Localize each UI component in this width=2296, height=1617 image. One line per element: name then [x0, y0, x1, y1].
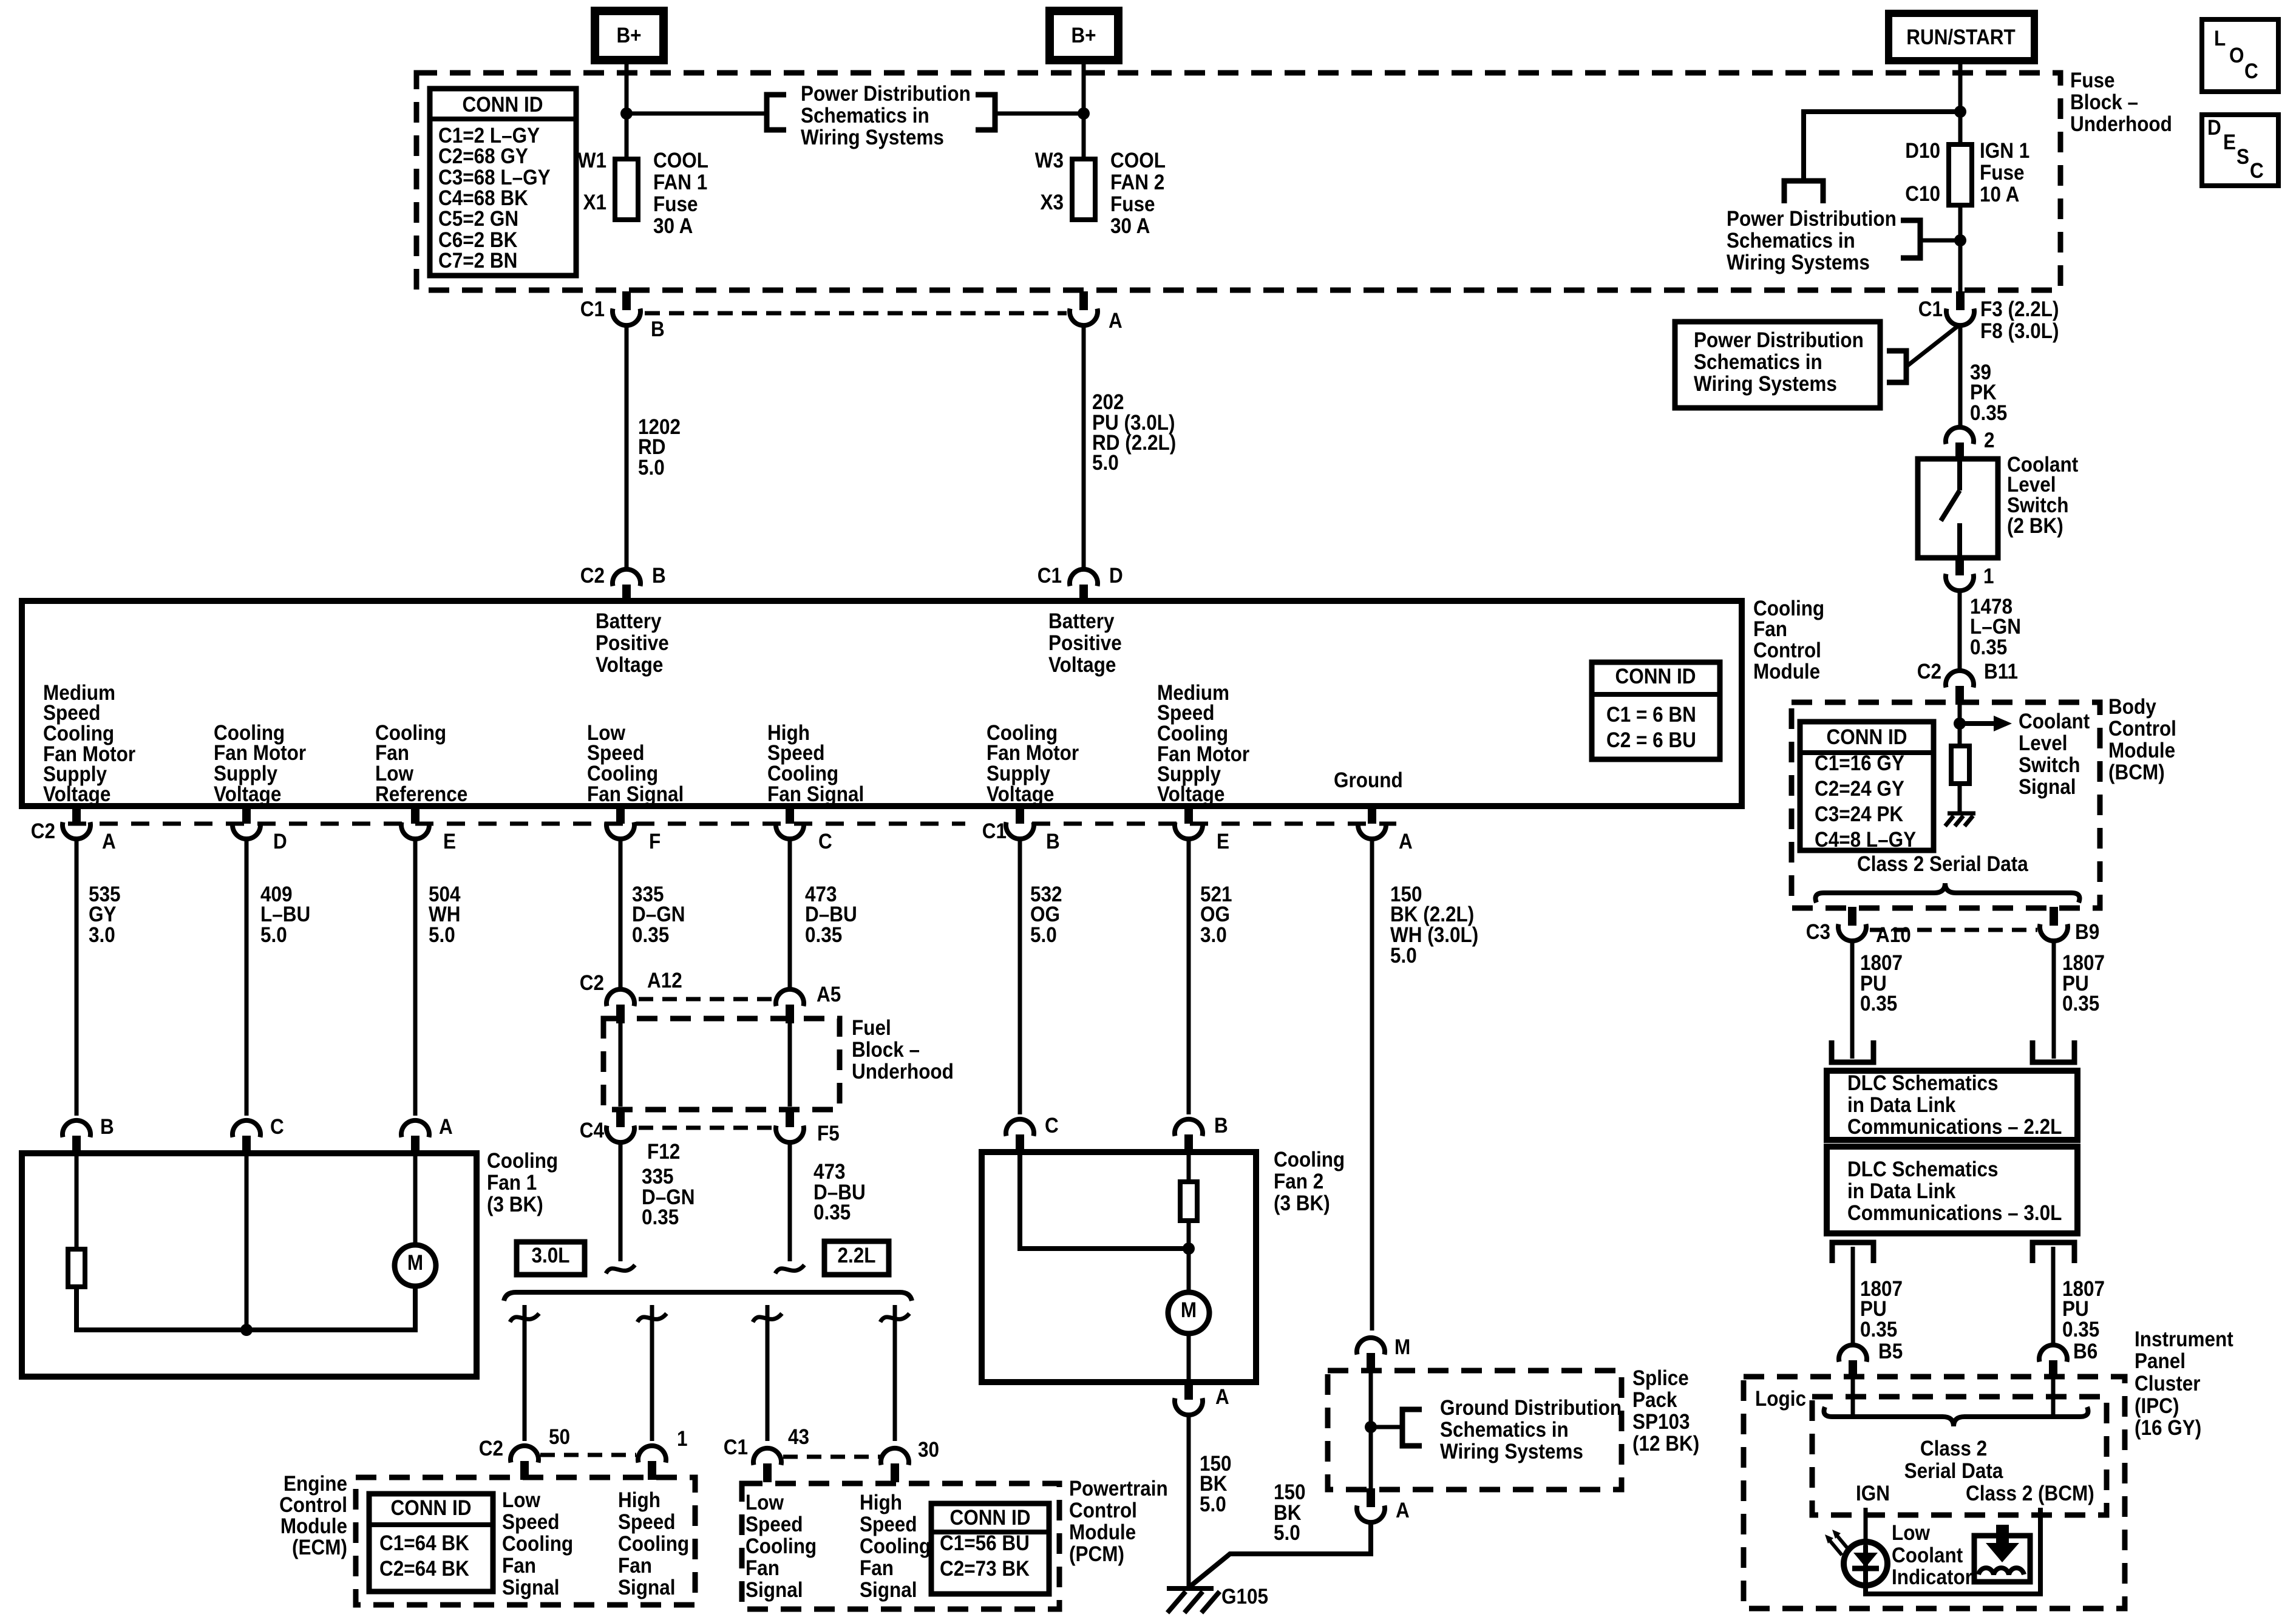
fuse IGN 1 value label — [1980, 140, 2029, 207]
svg-text:Module: Module — [1069, 1521, 1136, 1545]
wire B+2 to fuse W3 — [1082, 60, 1086, 159]
svg-text:Engine: Engine — [284, 1473, 347, 1496]
fuse COOL FAN 1 value label — [653, 149, 708, 239]
svg-text:A: A — [1396, 1499, 1410, 1523]
label coolant level switch — [2007, 453, 2078, 538]
module pin F (x=1022) — [606, 805, 661, 853]
fuse block - underhood (dashed enclosure) — [416, 73, 2060, 290]
svg-text:Battery: Battery — [1048, 610, 1115, 634]
label 1478 L-GN 0.35 — [1970, 595, 2021, 660]
svg-text:Logic: Logic — [1755, 1388, 1806, 1411]
wire module to fan1 (x=126) — [75, 838, 79, 1116]
svg-text:0.35: 0.35 — [642, 1206, 679, 1230]
label splice pack SP103 — [1632, 1367, 1699, 1456]
label class 2 serial data (IPC) — [1904, 1437, 2003, 1483]
svg-text:Power Distribution: Power Distribution — [801, 83, 971, 106]
svg-text:Splice: Splice — [1632, 1367, 1689, 1391]
svg-text:3.0: 3.0 — [1200, 924, 1227, 947]
wire junction to bracket — [1920, 239, 1960, 243]
svg-text:(12 BK): (12 BK) — [1632, 1432, 1699, 1456]
svg-text:C2=64 BK: C2=64 BK — [379, 1558, 469, 1581]
svg-text:Cooling: Cooling — [860, 1535, 931, 1559]
svg-text:Underhood: Underhood — [852, 1060, 954, 1084]
svg-text:C1: C1 — [1038, 564, 1062, 588]
module pin A (x=126) — [63, 805, 116, 853]
wire 1478 L-GN 0.35 — [1958, 590, 1962, 670]
svg-text:Powertrain: Powertrain — [1069, 1477, 1168, 1501]
svg-text:C1=56 BU: C1=56 BU — [940, 1532, 1030, 1556]
svg-text:B: B — [651, 318, 665, 342]
svg-text:C4=8 L–GY: C4=8 L–GY — [1815, 829, 1916, 852]
svg-text:Control: Control — [1753, 639, 1821, 663]
splice pack SP103 dashed box — [1328, 1371, 1622, 1490]
connector line A12-A5 — [639, 997, 772, 1002]
svg-text:B: B — [100, 1116, 114, 1139]
svg-text:C1: C1 — [724, 1436, 748, 1460]
wire IGN to indicator LED — [1864, 1508, 1868, 1545]
svg-text:Control: Control — [1069, 1499, 1137, 1523]
svg-text:C2: C2 — [1917, 660, 1941, 684]
label fuel block underhood — [852, 1017, 954, 1084]
svg-text:(16 GY): (16 GY) — [2135, 1417, 2201, 1440]
wire junction to bracket (splice) — [1371, 1425, 1402, 1429]
connector pin A (splice pack) — [1357, 1488, 1410, 1522]
svg-text:Wiring Systems: Wiring Systems — [1440, 1440, 1583, 1464]
svg-text:5.0: 5.0 — [1200, 1493, 1226, 1517]
powertrain control module (PCM) dashed box — [742, 1483, 1059, 1609]
svg-text:CONN ID: CONN ID — [950, 1507, 1031, 1530]
fan1 internal wiring (cont) — [76, 1285, 415, 1330]
connector C3 pin A10 — [1806, 907, 1911, 947]
wire RUN/START to fuse IGN1 — [1958, 60, 1963, 144]
svg-text:C: C — [1045, 1114, 1059, 1138]
svg-text:C4: C4 — [580, 1119, 605, 1143]
svg-text:D: D — [273, 830, 287, 854]
svg-text:IGN: IGN — [1856, 1482, 1890, 1506]
wire labels below module — [89, 883, 1478, 968]
svg-text:Communications – 2.2L: Communications – 2.2L — [1847, 1116, 2062, 1139]
svg-text:M: M — [1181, 1299, 1197, 1323]
svg-text:B: B — [652, 564, 666, 588]
terminal into DLC (right) — [2033, 1040, 2074, 1062]
svg-text:5.0: 5.0 — [429, 924, 455, 947]
fuse COOL FAN 2 (30A) W3/X3 — [1035, 149, 1095, 220]
svg-text:Fuse: Fuse — [653, 193, 698, 217]
svg-text:A: A — [102, 830, 116, 854]
terminal from DLC (right) — [2033, 1242, 2074, 1263]
bus stub with break (x=1474) — [880, 1314, 909, 1322]
svg-text:D: D — [2207, 117, 2221, 140]
junction node (fan1) — [240, 1324, 253, 1336]
label cooling fan 2 — [1274, 1148, 1345, 1216]
module pin E (x=1958) — [1175, 805, 1229, 853]
bracket to ground distribution label — [1402, 1409, 1422, 1446]
resistor (BCM pull) — [1951, 746, 1969, 784]
svg-text:Fan 2: Fan 2 — [1274, 1170, 1323, 1194]
svg-text:A12: A12 — [647, 969, 682, 993]
svg-text:A10: A10 — [1876, 924, 1911, 947]
svg-text:IGN 1: IGN 1 — [1980, 140, 2029, 163]
svg-text:A: A — [1399, 830, 1413, 854]
svg-text:Module: Module — [1753, 660, 1820, 684]
bus stub with break (x=1264) — [753, 1314, 782, 1322]
svg-text:3.0: 3.0 — [89, 924, 115, 947]
svg-text:E: E — [2223, 131, 2236, 155]
bracket to Power Distribution label (left) — [767, 95, 786, 130]
wire B5 to class2 bus — [1851, 1377, 1855, 1414]
connector C1 pin 43 (PCM) — [724, 1426, 809, 1482]
svg-text:Cooling: Cooling — [1274, 1148, 1345, 1172]
fan1 pin A — [401, 1116, 453, 1154]
svg-text:COOL: COOL — [653, 149, 708, 173]
svg-text:Fan: Fan — [502, 1554, 536, 1578]
label low coolant indicator — [1892, 1522, 1972, 1590]
svg-text:C10: C10 — [1905, 183, 1940, 206]
motor M (fan1) — [395, 1245, 436, 1286]
svg-text:C7=2 BN: C7=2 BN — [438, 249, 517, 273]
svg-text:DLC Schematics: DLC Schematics — [1847, 1158, 1998, 1182]
label 150 BK 5.0 (fan2) — [1200, 1453, 1232, 1517]
svg-text:X3: X3 — [1040, 191, 1064, 215]
svg-text:C: C — [2250, 160, 2264, 183]
label ground distribution schematics — [1440, 1397, 1622, 1464]
junction node on IGN feed — [1954, 106, 1966, 118]
svg-text:CONN ID: CONN ID — [391, 1497, 472, 1520]
wire B11 into BCM — [1958, 703, 1962, 746]
terminal into DLC (left) — [1832, 1040, 1873, 1062]
connector pin A5 — [776, 983, 841, 1023]
svg-text:C: C — [818, 830, 832, 854]
svg-text:Voltage: Voltage — [1048, 654, 1116, 677]
svg-text:Schematics in: Schematics in — [1727, 229, 1855, 253]
svg-text:CONN ID: CONN ID — [463, 93, 543, 117]
svg-text:E: E — [1217, 830, 1229, 854]
svg-text:Cluster: Cluster — [2135, 1372, 2201, 1396]
wire class2(BCM) to LED cathode — [1866, 1508, 2040, 1594]
svg-text:5.0: 5.0 — [638, 456, 665, 480]
ECM pin function labels — [502, 1489, 689, 1600]
svg-text:Schematics in: Schematics in — [1694, 351, 1822, 375]
brace class 2 serial data (IPC) — [1824, 1407, 2088, 1426]
connector line C1 (fuse block bottom) — [645, 311, 1067, 316]
wire 1202 RD 5.0 — [625, 327, 629, 569]
svg-text:5.0: 5.0 — [1390, 944, 1417, 968]
svg-text:Control: Control — [2108, 717, 2176, 741]
svg-text:Class 2 (BCM): Class 2 (BCM) — [1966, 1482, 2094, 1506]
svg-text:0.35: 0.35 — [805, 924, 842, 947]
svg-text:43: 43 — [788, 1426, 809, 1449]
svg-text:(IPC): (IPC) — [2135, 1395, 2179, 1419]
svg-text:C2=24 GY: C2=24 GY — [1815, 778, 1904, 801]
svg-text:CONN ID: CONN ID — [1827, 726, 1907, 750]
svg-text:Speed: Speed — [746, 1513, 803, 1537]
wire 335 D-GN 0.35 (lower) — [619, 1142, 623, 1261]
svg-text:0.35: 0.35 — [632, 924, 669, 947]
low coolant icon — [1974, 1525, 2030, 1582]
connector pin M (splice pack) — [1357, 1336, 1410, 1372]
svg-text:Level: Level — [2019, 732, 2068, 756]
svg-text:A: A — [1215, 1386, 1229, 1409]
svg-text:(3 BK): (3 BK) — [487, 1193, 543, 1217]
wire B+1 to fuse W1 — [625, 60, 629, 159]
svg-text:C2: C2 — [580, 564, 605, 588]
svg-text:COOL: COOL — [1110, 149, 1166, 173]
wire module to fan1 (x=406) — [245, 838, 249, 1116]
svg-text:DLC Schematics: DLC Schematics — [1847, 1072, 1998, 1096]
svg-text:Positive: Positive — [1048, 632, 1122, 656]
svg-text:0.35: 0.35 — [1970, 402, 2007, 425]
svg-text:A: A — [1109, 310, 1123, 333]
svg-text:30: 30 — [918, 1439, 939, 1462]
brace class 2 serial data (BCM) — [1816, 883, 2080, 903]
svg-text:Battery: Battery — [596, 610, 662, 634]
fuse block label — [2070, 69, 2172, 137]
power symbol B+ (feed 2) — [1050, 11, 1118, 60]
svg-text:Fuel: Fuel — [852, 1017, 891, 1040]
svg-text:Fan: Fan — [860, 1557, 894, 1581]
svg-text:Fan: Fan — [1753, 618, 1787, 642]
fan2 pin A connector — [1175, 1381, 1229, 1415]
svg-text:E: E — [443, 830, 456, 854]
internal ground (BCM) — [1945, 813, 1975, 826]
svg-text:0.35: 0.35 — [2062, 1318, 2099, 1342]
svg-text:Voltage: Voltage — [214, 783, 281, 807]
module pin D (x=406) — [233, 805, 287, 853]
svg-text:Ground: Ground — [1334, 769, 1403, 793]
label 1202 RD 5.0 — [638, 416, 681, 480]
fuse COOL FAN 1 (30A) W1/X1 — [578, 149, 638, 220]
svg-text:B6: B6 — [2073, 1340, 2097, 1364]
svg-text:Class 2: Class 2 — [1920, 1437, 1987, 1461]
svg-text:C2: C2 — [479, 1437, 503, 1461]
svg-text:M: M — [407, 1252, 423, 1275]
label powertrain control module — [1069, 1477, 1168, 1567]
resistor (fan2) — [1180, 1182, 1197, 1221]
svg-text:Body: Body — [2108, 696, 2156, 719]
svg-text:Speed: Speed — [618, 1511, 676, 1534]
wire through fuel block (F5) — [788, 1022, 792, 1107]
svg-text:Power Distribution: Power Distribution — [1727, 208, 1897, 231]
wire bracket to fan2 feed — [995, 112, 1082, 116]
svg-text:S: S — [2237, 146, 2249, 169]
svg-text:Signal: Signal — [502, 1576, 559, 1600]
svg-text:Pack: Pack — [1632, 1389, 1677, 1412]
bus stub with break (x=864) — [510, 1314, 539, 1322]
instrument panel cluster (IPC) dashed box — [1744, 1377, 2125, 1609]
low coolant indicator LED — [1844, 1542, 1887, 1585]
connector line F12-F5 — [639, 1126, 772, 1130]
svg-text:C2 = 6 BU: C2 = 6 BU — [1606, 729, 1696, 753]
svg-text:Fuse: Fuse — [1980, 161, 2024, 185]
fan2 pin B — [1175, 1114, 1228, 1153]
connector C1 pin A (fan2 feed) — [1070, 291, 1123, 333]
svg-text:B5: B5 — [1878, 1340, 1903, 1364]
CONN ID table (ECM) — [369, 1494, 493, 1592]
coolant level switch (2 BK) — [1918, 459, 1998, 558]
svg-text:Power Distribution: Power Distribution — [1694, 329, 1864, 353]
svg-text:0.35: 0.35 — [813, 1201, 851, 1225]
CONN ID table (module) — [1592, 662, 1720, 759]
svg-text:Voltage: Voltage — [1157, 783, 1224, 807]
wire 202 PU/RD 5.0 — [1082, 327, 1086, 569]
bracket right of boxed PDS label — [1887, 351, 1906, 382]
wire through splice pack — [1369, 1371, 1373, 1491]
svg-text:50: 50 — [549, 1426, 570, 1449]
connector pin 30 (PCM) — [881, 1439, 939, 1482]
svg-text:Wiring Systems: Wiring Systems — [1694, 373, 1837, 396]
label battery positive voltage (right) — [1048, 610, 1122, 677]
fuse IGN 1 (10A) D10/C10 — [1905, 140, 1972, 206]
svg-text:C1=16 GY: C1=16 GY — [1815, 752, 1904, 776]
connector line C2/C1 (module bottom) — [68, 822, 965, 826]
svg-text:30 A: 30 A — [653, 215, 693, 239]
engine control module (ECM) dashed box — [356, 1477, 695, 1605]
cooling fan 1 box — [22, 1153, 477, 1377]
svg-text:Cooling: Cooling — [746, 1535, 817, 1559]
wire module to fan2 (x=1958) — [1187, 838, 1191, 1114]
svg-text:Communications – 3.0L: Communications – 3.0L — [1847, 1202, 2062, 1225]
svg-text:SP103: SP103 — [1632, 1411, 1690, 1434]
svg-text:Voltage: Voltage — [43, 783, 110, 807]
svg-text:Fan: Fan — [746, 1557, 779, 1581]
svg-text:(BCM): (BCM) — [2108, 761, 2165, 785]
label cooling fan 1 — [487, 1150, 558, 1217]
connector pin 2 (coolant switch) — [1946, 427, 1995, 461]
wire 39 PK 0.35 — [1958, 327, 1963, 427]
junction node on fan2 feed — [1078, 107, 1090, 120]
svg-text:C: C — [270, 1116, 284, 1139]
svg-text:Fan Signal: Fan Signal — [587, 783, 684, 807]
svg-text:Low: Low — [746, 1491, 784, 1515]
svg-text:High: High — [860, 1491, 902, 1515]
svg-text:Voltage: Voltage — [987, 783, 1054, 807]
power symbol B+ (feed 1) — [595, 11, 664, 60]
svg-text:C: C — [2244, 60, 2258, 84]
svg-text:Cooling: Cooling — [502, 1533, 573, 1556]
svg-text:D: D — [1109, 564, 1123, 588]
junction node on fan1 feed — [620, 107, 633, 120]
svg-text:B: B — [1214, 1114, 1228, 1138]
svg-text:0.35: 0.35 — [1860, 1318, 1897, 1342]
CONN ID table (PCM) — [931, 1503, 1049, 1594]
svg-text:Fan 1: Fan 1 — [487, 1171, 537, 1195]
svg-text:Voltage: Voltage — [596, 654, 663, 677]
PCM pin function labels — [746, 1491, 931, 1602]
svg-text:B: B — [1046, 830, 1060, 854]
wire B6 to class2 bus — [2051, 1377, 2056, 1414]
svg-text:C3=24 PK: C3=24 PK — [1815, 803, 1903, 827]
fan1 internal wiring — [75, 1153, 79, 1249]
svg-text:5.0: 5.0 — [1030, 924, 1057, 947]
svg-text:Class 2 Serial Data: Class 2 Serial Data — [1857, 853, 2028, 876]
svg-text:C1: C1 — [580, 298, 605, 322]
svg-text:A: A — [439, 1116, 453, 1139]
connector pin F5 — [776, 1108, 840, 1145]
logic dashed box (IPC) — [1812, 1397, 2107, 1515]
label body control module — [2108, 696, 2176, 785]
svg-text:Control: Control — [279, 1494, 347, 1517]
svg-text:Fan: Fan — [618, 1554, 652, 1578]
connector line 43-30 (PCM) — [783, 1455, 880, 1459]
svg-text:D10: D10 — [1905, 140, 1940, 163]
svg-text:0.35: 0.35 — [1970, 636, 2007, 660]
svg-text:Switch: Switch — [2019, 754, 2080, 778]
LED light arrows — [1825, 1530, 1849, 1555]
svg-text:Module: Module — [280, 1515, 347, 1539]
svg-text:Block –: Block – — [2070, 91, 2138, 115]
svg-text:FAN 2: FAN 2 — [1110, 171, 1164, 195]
svg-text:30 A: 30 A — [1110, 215, 1150, 239]
wire splice to G105 — [1190, 1522, 1371, 1586]
fan2 internal wiring — [1020, 1152, 1187, 1249]
svg-text:(3 BK): (3 BK) — [1274, 1192, 1330, 1216]
diagonal wire bracket to C1 connector — [1906, 327, 1957, 367]
label: Power Distribution Schematics in Wiring Systems (top) — [801, 83, 971, 150]
connector C1 pins F3/F8 — [1918, 291, 2059, 343]
svg-text:Positive: Positive — [596, 632, 669, 656]
svg-text:Coolant: Coolant — [2019, 710, 2090, 734]
svg-text:Cooling: Cooling — [487, 1150, 558, 1173]
svg-text:F: F — [649, 830, 661, 854]
wire 1807 PU 0.35 (to DLC, right) — [2052, 941, 2056, 1059]
svg-text:Schematics in: Schematics in — [1440, 1419, 1569, 1442]
module pin C (x=1301) — [776, 805, 832, 853]
svg-text:C1=64 BK: C1=64 BK — [379, 1532, 469, 1556]
svg-text:F8 (3.0L): F8 (3.0L) — [1980, 320, 2059, 344]
svg-text:B11: B11 — [1984, 660, 2018, 684]
svg-text:Panel: Panel — [2135, 1350, 2186, 1374]
module pin A (x=2260) — [1358, 805, 1413, 853]
fan1 pin B — [63, 1116, 114, 1154]
fan2 pin C — [1006, 1114, 1059, 1153]
connector C1 pin D (module top) — [1038, 564, 1123, 603]
svg-text:Signal: Signal — [860, 1579, 917, 1602]
svg-text:FAN 1: FAN 1 — [653, 171, 707, 195]
label 39 PK 0.35 — [1970, 361, 2007, 425]
wire module F to connector A12 — [619, 838, 623, 989]
svg-text:M: M — [1394, 1336, 1410, 1360]
body control module (BCM) dashed box — [1792, 702, 2100, 908]
svg-text:Ground Distribution: Ground Distribution — [1440, 1397, 1622, 1420]
svg-text:Cooling: Cooling — [618, 1533, 689, 1556]
junction node (BCM) — [1954, 717, 1966, 730]
svg-text:Signal: Signal — [746, 1579, 803, 1602]
svg-text:C2=68 GY: C2=68 GY — [438, 145, 528, 169]
svg-text:Schematics in: Schematics in — [801, 104, 929, 128]
svg-text:5.0: 5.0 — [1092, 452, 1119, 475]
svg-text:A5: A5 — [817, 983, 841, 1007]
svg-text:2: 2 — [1984, 429, 1995, 453]
module pin B (x=1680) — [1006, 805, 1060, 853]
ground G105 — [1167, 1585, 1268, 1613]
CONN ID table (BCM) — [1800, 722, 1934, 852]
svg-text:Wiring Systems: Wiring Systems — [1727, 251, 1870, 275]
svg-text:C2: C2 — [31, 820, 55, 844]
label coolant level switch signal — [2019, 710, 2090, 799]
junction node (fan2) — [1183, 1242, 1195, 1255]
svg-text:Instrument: Instrument — [2135, 1328, 2233, 1352]
label 202 PU RD 5.0 — [1092, 391, 1176, 475]
svg-text:Fuse: Fuse — [1110, 193, 1155, 217]
svg-text:RUN/START: RUN/START — [1906, 26, 2016, 50]
svg-text:C2=73 BK: C2=73 BK — [940, 1558, 1030, 1581]
svg-text:C3: C3 — [1806, 921, 1830, 944]
cooling fan 2 box — [982, 1152, 1256, 1382]
connector C2 pin 50 (ECM) — [479, 1426, 570, 1480]
svg-text:Serial Data: Serial Data — [1904, 1460, 2003, 1483]
label battery positive voltage (left) — [596, 610, 669, 677]
connector C2 pin B11 (BCM) — [1917, 660, 2018, 705]
